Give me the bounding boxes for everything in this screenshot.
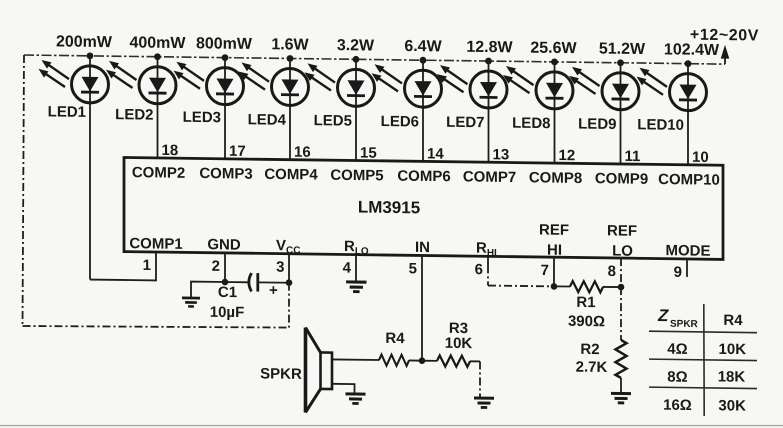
svg-text:C1: C1: [218, 284, 237, 301]
speaker SPKR symbol: [306, 327, 333, 412]
svg-text:HI: HI: [547, 242, 562, 259]
wire: R3 to ground (dash-dot): [470, 361, 480, 398]
svg-text:LED2: LED2: [115, 106, 153, 123]
capacitor C1 10uF electrolytic: [225, 273, 289, 300]
resistor R3 10K: [437, 355, 470, 366]
wire: bottom supply feed to Vcc (dash-dot): [23, 324, 290, 329]
wire: speaker bottom terminal to ground: [332, 384, 355, 394]
svg-text:LED5: LED5: [314, 112, 352, 129]
svg-text:18: 18: [162, 142, 179, 159]
node: Vcc/C1+ junction: [286, 279, 293, 286]
ground: speaker ground symbol: [346, 394, 366, 404]
svg-text:6: 6: [475, 261, 483, 278]
svg-text:COMP10: COMP10: [658, 171, 720, 189]
svg-text:9: 9: [674, 264, 682, 281]
svg-text:7: 7: [541, 262, 549, 279]
table: R4 selection vs speaker impedance: [649, 303, 757, 416]
svg-text:COMP5: COMP5: [330, 167, 383, 185]
LED4 indicator diode: [239, 54, 309, 160]
LED9 indicator diode: [569, 59, 639, 165]
svg-text:800mW: 800mW: [196, 35, 253, 53]
svg-text:COMP9: COMP9: [595, 170, 648, 188]
svg-text:3: 3: [276, 259, 284, 276]
wire: pin 9 MODE stub: [686, 259, 688, 277]
svg-text:16Ω: 16Ω: [663, 397, 692, 414]
svg-text:LED4: LED4: [248, 111, 287, 129]
resistor R2 2.7K (vertical): [616, 340, 627, 394]
svg-text:4: 4: [343, 259, 352, 276]
svg-text:REF: REF: [607, 222, 637, 239]
wire: Vcc down to supply feed (dash-dot): [288, 283, 290, 328]
svg-text:R4: R4: [385, 330, 405, 347]
svg-text:COMP8: COMP8: [529, 169, 582, 187]
svg-text:18K: 18K: [718, 368, 746, 385]
svg-text:R4: R4: [723, 312, 743, 329]
svg-text:LED9: LED9: [578, 116, 616, 133]
op-amp U1: LM3915 IC body: [124, 158, 723, 260]
LED3 indicator diode: [174, 54, 244, 160]
svg-text:3.2W: 3.2W: [337, 37, 375, 54]
svg-text:Z: Z: [657, 306, 669, 325]
svg-text:LO: LO: [612, 242, 633, 259]
svg-text:12: 12: [559, 147, 576, 164]
wire: pin 5 IN line down to R4/R3 junction: [421, 255, 423, 360]
wire: R4 to IN junction: [409, 359, 422, 361]
wire: junction to ground: [191, 282, 225, 299]
svg-text:SPKR: SPKR: [260, 365, 302, 383]
svg-text:10µF: 10µF: [210, 304, 244, 321]
svg-text:5: 5: [409, 260, 417, 277]
svg-text:GND: GND: [207, 236, 240, 253]
LED1 indicator diode: [39, 52, 109, 280]
wire: pin 3 Vcc stub: [288, 254, 290, 283]
svg-text:LED1: LED1: [48, 103, 86, 120]
svg-text:390Ω: 390Ω: [568, 313, 605, 330]
wire: pin 7 REF HI stub: [553, 257, 555, 286]
svg-text:COMP3: COMP3: [199, 165, 252, 183]
ground: R2 ground symbol: [611, 393, 631, 403]
svg-text:REF: REF: [539, 222, 569, 239]
svg-text:COMP2: COMP2: [132, 164, 185, 182]
svg-text:LED7: LED7: [446, 114, 484, 131]
svg-text:400mW: 400mW: [129, 34, 186, 52]
LED2 indicator diode: [106, 53, 176, 159]
resistor R4: [379, 355, 409, 366]
svg-text:COMP4: COMP4: [264, 166, 318, 184]
scan artifact: faint page edge line at bottom: [0, 425, 783, 427]
svg-text:25.6W: 25.6W: [530, 40, 577, 58]
svg-text:8: 8: [608, 263, 616, 280]
svg-text:51.2W: 51.2W: [599, 40, 646, 58]
svg-text:17: 17: [229, 143, 246, 160]
svg-text:13: 13: [493, 146, 510, 163]
svg-text:2: 2: [212, 258, 220, 275]
ground: R3 ground symbol: [474, 398, 494, 408]
svg-text:4Ω: 4Ω: [667, 341, 687, 358]
svg-text:LED10: LED10: [637, 116, 684, 134]
ground: R_LO ground symbol: [346, 282, 366, 292]
svg-text:COMP6: COMP6: [397, 168, 450, 186]
svg-text:1.6W: 1.6W: [271, 36, 309, 53]
svg-text:LED3: LED3: [183, 109, 221, 126]
svg-text:R1: R1: [576, 294, 595, 311]
wire: supply riser with arrow to +12-20V: [721, 45, 730, 64]
svg-text:6.4W: 6.4W: [404, 38, 442, 55]
svg-text:10K: 10K: [445, 335, 473, 352]
wire: pin 8 REF LO stub (dash-dot): [620, 258, 622, 287]
svg-text:8Ω: 8Ω: [667, 368, 687, 385]
svg-text:30K: 30K: [718, 397, 746, 414]
resistor R1 390ohm: [554, 281, 621, 293]
wire: pin 4 R_LO stub to ground: [355, 255, 357, 282]
svg-text:14: 14: [427, 145, 444, 162]
svg-text:1: 1: [143, 257, 151, 274]
wire: pin 2 GND stub: [224, 253, 226, 282]
ground: GND pin ground symbol: [182, 298, 200, 307]
node: IN/R4/R3 junction: [419, 357, 426, 364]
svg-text:16: 16: [294, 144, 311, 161]
svg-text:LM3915: LM3915: [358, 198, 420, 218]
svg-text:10: 10: [692, 149, 709, 166]
svg-text:LED6: LED6: [381, 113, 419, 130]
wire: left vertical supply feed (dash-dot): [23, 55, 25, 326]
svg-text:12.8W: 12.8W: [466, 39, 513, 57]
svg-text:15: 15: [360, 144, 377, 161]
wire: LED1 cathode to COMP1 pin 1: [90, 251, 156, 280]
wire: speaker top terminal to R4: [332, 358, 379, 361]
LED8 indicator diode: [503, 58, 573, 164]
svg-text:COMP1: COMP1: [129, 235, 182, 253]
LED6 indicator diode: [372, 56, 442, 162]
svg-text:COMP7: COMP7: [463, 168, 516, 186]
svg-text:LED8: LED8: [512, 115, 550, 132]
svg-text:SPKR: SPKR: [670, 319, 699, 330]
svg-text:11: 11: [625, 148, 641, 165]
wire: pin 6 R_HI stub (dash-dot) to REF HI: [488, 256, 554, 286]
svg-text:IN: IN: [415, 239, 430, 256]
svg-text:2.7K: 2.7K: [576, 359, 608, 376]
svg-text:200mW: 200mW: [56, 33, 113, 51]
svg-text:MODE: MODE: [666, 242, 711, 260]
LED7 indicator diode: [437, 57, 507, 163]
svg-text:+: +: [269, 282, 278, 299]
node: REF LO junction: [618, 284, 625, 291]
svg-text:102.4W: 102.4W: [664, 41, 720, 59]
svg-text:10K: 10K: [719, 341, 747, 358]
wire: +V LED supply rail (top, dash-dot): [24, 55, 725, 64]
wire: junction to R3: [422, 360, 437, 362]
node: pin2/C1 junction: [222, 279, 229, 286]
wire: REF LO junction down to R2 (dash-dot): [620, 287, 622, 340]
LED5 indicator diode: [305, 55, 375, 161]
LED10 indicator diode: [637, 60, 707, 166]
node: REF HI junction: [551, 283, 558, 290]
svg-text:R2: R2: [580, 341, 599, 358]
